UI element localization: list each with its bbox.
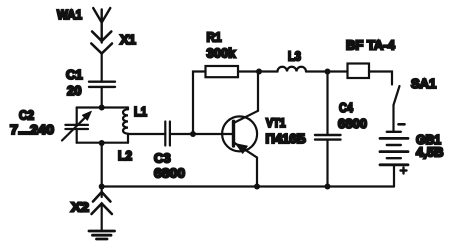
svg-text:4,5В: 4,5В <box>416 145 443 160</box>
wire coil tap to C3 <box>128 133 165 135</box>
bottom rail <box>102 185 394 187</box>
inductor L3 <box>278 67 307 72</box>
connector X1 <box>91 32 112 54</box>
svg-text:BF TA-4: BF TA-4 <box>346 38 396 53</box>
svg-text:L2: L2 <box>118 148 132 163</box>
headphone BF TA-4 <box>348 64 370 79</box>
svg-text:7...240: 7...240 <box>10 122 54 137</box>
capacitor C4 <box>315 72 341 187</box>
node C4 rail <box>325 184 331 190</box>
wire node to BF <box>328 70 348 72</box>
capacitor C2 variable <box>62 108 91 143</box>
svg-text:C2: C2 <box>19 108 34 123</box>
node emitter rail <box>254 184 260 190</box>
connector X2 <box>92 187 112 215</box>
wire X1 to C1 <box>101 54 103 82</box>
battery minus sign <box>399 123 405 126</box>
svg-text:300k: 300k <box>207 46 237 61</box>
wire BF to switch corner <box>369 72 392 85</box>
battery plus sign <box>401 168 407 174</box>
wire battery to rail <box>393 165 395 187</box>
svg-text:X1: X1 <box>120 32 136 47</box>
inductor L1 <box>123 108 128 134</box>
svg-text:R1: R1 <box>207 30 222 45</box>
svg-text:П416Б: П416Б <box>266 131 306 146</box>
switch SA1 <box>394 86 400 132</box>
wire L3 to C4 node <box>306 70 328 72</box>
resistor R1 <box>206 66 239 77</box>
node L3 / C4 / BF <box>325 69 331 75</box>
capacitor C1 <box>89 82 115 87</box>
wire X2 to ground <box>101 204 103 232</box>
svg-text:C1: C1 <box>66 67 83 82</box>
node collector / R1 / L3 <box>256 69 262 75</box>
svg-text:SA1: SA1 <box>411 76 436 91</box>
capacitor C3 <box>165 122 170 146</box>
antenna WA1 <box>93 8 110 43</box>
wire R1 to collector node <box>238 70 259 72</box>
node tank top <box>99 105 105 111</box>
inductor L2 tail <box>127 134 129 143</box>
svg-text:6800: 6800 <box>154 166 185 181</box>
wire C3 to base <box>170 133 233 135</box>
wire emitter down <box>256 158 258 187</box>
transistor VT1 <box>222 111 258 158</box>
svg-text:L3: L3 <box>288 49 301 64</box>
battery GB1 <box>380 132 408 165</box>
wire R1 branch vertical <box>193 72 206 135</box>
ground <box>89 231 115 239</box>
svg-text:C3: C3 <box>154 151 171 166</box>
wire tank bottom <box>77 142 128 144</box>
node base / R1 junction <box>190 131 196 137</box>
svg-text:VT1: VT1 <box>266 118 286 130</box>
wire tank top <box>77 106 128 108</box>
wire C1 to tank top <box>101 88 103 108</box>
wire collector up <box>257 72 259 111</box>
svg-text:WA1: WA1 <box>57 7 82 22</box>
node X2 rail <box>99 184 105 190</box>
svg-text:X2: X2 <box>71 200 89 215</box>
node tank bottom <box>99 140 105 146</box>
svg-text:L1: L1 <box>134 104 147 119</box>
svg-text:6800: 6800 <box>338 116 367 131</box>
svg-text:C4: C4 <box>339 100 354 115</box>
wire tank bottom to rail <box>101 143 103 187</box>
svg-text:20: 20 <box>67 83 81 98</box>
wire node to L3 <box>259 70 278 72</box>
